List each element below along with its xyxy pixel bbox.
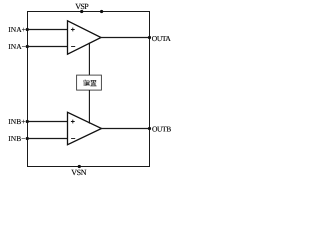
wire INB- to op-amp B inverting input [28,138,68,140]
svg-text:VSN: VSN [71,168,86,177]
wire INB+ to op-amp B noninverting input [28,121,68,123]
node OUTB terminal dot [148,127,151,130]
wire op-amp A output to OUTA [100,37,150,39]
svg-text:OUTA: OUTA [152,34,171,43]
wire INA+ to op-amp A noninverting input [28,29,68,31]
node junction dot on VSP rail [100,10,103,13]
node INA+ terminal dot [26,28,29,31]
node INB+ terminal dot [26,120,29,123]
op-amp A plus input mark [71,28,75,32]
op-amp B minus input mark [71,138,75,140]
svg-text:VSP: VSP [75,2,89,11]
wire INA- to op-amp A inverting input [28,46,68,48]
node INB- terminal dot [26,137,29,140]
node VSN junction dot [78,165,81,168]
bias block label (CJK glyphs drawn as strokes) [84,80,97,86]
node INA- terminal dot [26,45,29,48]
op-amp B plus input mark [71,120,75,124]
svg-text:OUTB: OUTB [152,125,171,134]
svg-text:INA+: INA+ [8,25,26,34]
node OUTA terminal dot [148,36,151,39]
wire op-amp B output to OUTB [101,128,150,130]
op-amp A [68,21,102,54]
IC boundary box [28,12,150,167]
svg-text:INA−: INA− [8,42,26,51]
bias block [77,75,102,90]
node VSP junction dot [80,10,83,13]
svg-text:INB+: INB+ [8,117,25,126]
op-amp B [68,112,102,144]
svg-text:INB−: INB− [8,134,25,143]
wire op-amp A to bias block [88,43,90,76]
wire bias block to op-amp B [88,90,90,124]
op-amp A minus input mark [71,46,75,48]
